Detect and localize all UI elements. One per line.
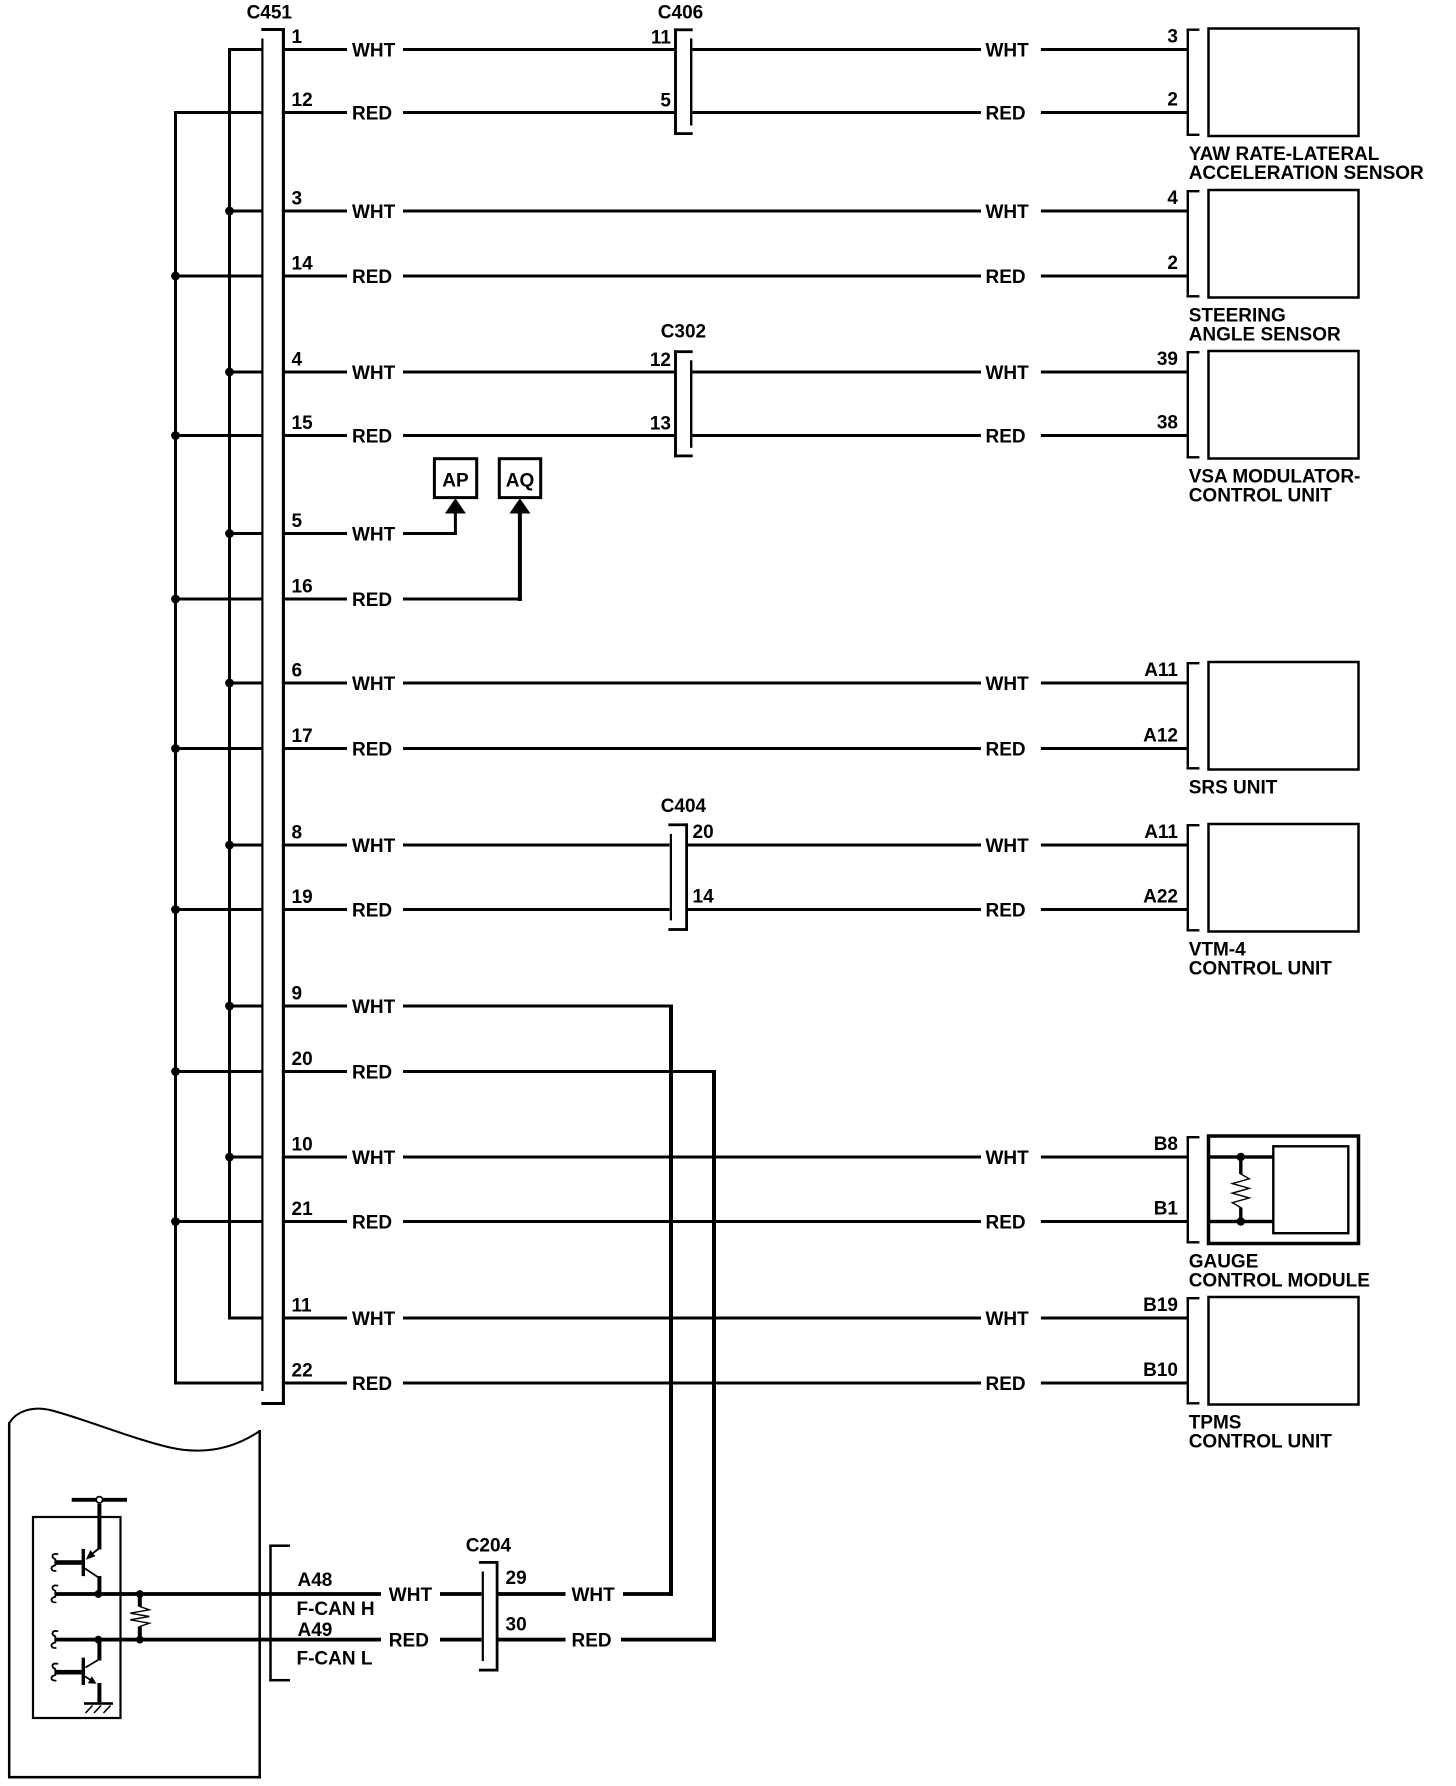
svg-text:39: 39 bbox=[1157, 349, 1178, 370]
svg-text:CONTROL UNIT: CONTROL UNIT bbox=[1189, 1432, 1333, 1453]
svg-text:3: 3 bbox=[1167, 27, 1178, 48]
svg-text:AQ: AQ bbox=[506, 470, 535, 491]
svg-text:C204: C204 bbox=[466, 1536, 512, 1557]
svg-text:5: 5 bbox=[292, 511, 303, 532]
svg-text:B10: B10 bbox=[1143, 1360, 1178, 1381]
svg-text:8: 8 bbox=[292, 823, 303, 844]
svg-text:38: 38 bbox=[1157, 413, 1178, 434]
svg-text:29: 29 bbox=[506, 1568, 527, 1589]
svg-text:20: 20 bbox=[693, 822, 714, 843]
svg-text:WHT: WHT bbox=[986, 202, 1030, 223]
svg-text:WHT: WHT bbox=[352, 674, 396, 695]
svg-text:B1: B1 bbox=[1154, 1199, 1179, 1220]
svg-text:F-CAN H: F-CAN H bbox=[297, 1599, 375, 1620]
svg-text:ANGLE SENSOR: ANGLE SENSOR bbox=[1189, 325, 1341, 346]
svg-text:RED: RED bbox=[572, 1631, 612, 1652]
svg-text:WHT: WHT bbox=[986, 836, 1030, 857]
svg-text:14: 14 bbox=[292, 254, 314, 275]
svg-text:RED: RED bbox=[352, 740, 392, 761]
svg-text:13: 13 bbox=[650, 414, 671, 435]
svg-text:A11: A11 bbox=[1144, 822, 1178, 843]
svg-text:ACCELERATION SENSOR: ACCELERATION SENSOR bbox=[1189, 163, 1424, 184]
svg-text:RED: RED bbox=[352, 1063, 392, 1084]
svg-text:WHT: WHT bbox=[352, 202, 396, 223]
svg-text:4: 4 bbox=[1167, 188, 1178, 209]
svg-text:2: 2 bbox=[1167, 253, 1178, 274]
svg-text:C451: C451 bbox=[247, 3, 293, 24]
svg-text:WHT: WHT bbox=[352, 836, 396, 857]
svg-text:RED: RED bbox=[352, 104, 392, 125]
svg-text:A12: A12 bbox=[1143, 726, 1178, 747]
svg-text:B8: B8 bbox=[1154, 1134, 1178, 1155]
svg-text:A48: A48 bbox=[298, 1570, 333, 1591]
svg-text:RED: RED bbox=[986, 1374, 1026, 1395]
svg-text:6: 6 bbox=[292, 661, 303, 682]
svg-text:VTM-4: VTM-4 bbox=[1189, 940, 1246, 961]
svg-text:TPMS: TPMS bbox=[1189, 1413, 1242, 1434]
svg-text:15: 15 bbox=[292, 413, 314, 434]
svg-text:RED: RED bbox=[352, 1213, 392, 1234]
svg-text:RED: RED bbox=[986, 1213, 1026, 1234]
svg-text:RED: RED bbox=[986, 104, 1026, 125]
svg-text:11: 11 bbox=[292, 1296, 313, 1317]
svg-text:F-CAN L: F-CAN L bbox=[297, 1648, 373, 1669]
svg-text:RED: RED bbox=[352, 590, 392, 611]
svg-text:2: 2 bbox=[1167, 90, 1178, 111]
svg-text:WHT: WHT bbox=[352, 1309, 396, 1330]
svg-text:4: 4 bbox=[292, 350, 303, 371]
svg-text:10: 10 bbox=[292, 1135, 313, 1156]
svg-text:CONTROL UNIT: CONTROL UNIT bbox=[1189, 959, 1333, 980]
svg-text:WHT: WHT bbox=[986, 363, 1030, 384]
svg-text:RED: RED bbox=[986, 427, 1026, 448]
svg-text:1: 1 bbox=[292, 27, 303, 48]
svg-text:21: 21 bbox=[292, 1199, 314, 1220]
svg-text:3: 3 bbox=[292, 189, 303, 210]
svg-text:A22: A22 bbox=[1143, 887, 1178, 908]
svg-text:WHT: WHT bbox=[986, 1309, 1030, 1330]
svg-text:WHT: WHT bbox=[572, 1585, 616, 1606]
svg-text:VSA MODULATOR-: VSA MODULATOR- bbox=[1189, 467, 1361, 488]
svg-text:CONTROL MODULE: CONTROL MODULE bbox=[1189, 1271, 1370, 1292]
svg-text:WHT: WHT bbox=[352, 1148, 396, 1169]
svg-text:RED: RED bbox=[352, 427, 392, 448]
svg-text:17: 17 bbox=[292, 726, 313, 747]
svg-text:22: 22 bbox=[292, 1361, 313, 1382]
svg-text:WHT: WHT bbox=[986, 1148, 1030, 1169]
svg-text:WHT: WHT bbox=[352, 997, 396, 1018]
svg-text:RED: RED bbox=[352, 901, 392, 922]
svg-text:12: 12 bbox=[650, 350, 671, 371]
svg-text:9: 9 bbox=[292, 984, 303, 1005]
svg-text:CONTROL UNIT: CONTROL UNIT bbox=[1189, 486, 1333, 507]
svg-text:SRS UNIT: SRS UNIT bbox=[1189, 778, 1278, 799]
svg-text:YAW RATE-LATERAL: YAW RATE-LATERAL bbox=[1189, 144, 1380, 165]
svg-text:RED: RED bbox=[352, 1374, 392, 1395]
svg-text:16: 16 bbox=[292, 577, 313, 598]
svg-text:14: 14 bbox=[693, 887, 715, 908]
svg-text:RED: RED bbox=[352, 267, 392, 288]
svg-text:C302: C302 bbox=[661, 322, 706, 343]
svg-text:11: 11 bbox=[651, 28, 672, 49]
svg-text:30: 30 bbox=[506, 1615, 527, 1636]
svg-text:B19: B19 bbox=[1143, 1295, 1178, 1316]
svg-text:20: 20 bbox=[292, 1049, 313, 1070]
svg-text:WHT: WHT bbox=[986, 41, 1030, 62]
svg-text:AP: AP bbox=[442, 470, 469, 491]
svg-text:GAUGE: GAUGE bbox=[1189, 1252, 1259, 1273]
svg-text:A49: A49 bbox=[298, 1620, 333, 1641]
svg-text:WHT: WHT bbox=[986, 674, 1030, 695]
svg-text:RED: RED bbox=[389, 1631, 429, 1652]
svg-text:5: 5 bbox=[660, 91, 671, 112]
svg-text:A11: A11 bbox=[1144, 660, 1178, 681]
svg-text:STEERING: STEERING bbox=[1189, 306, 1286, 327]
svg-text:RED: RED bbox=[986, 267, 1026, 288]
svg-text:WHT: WHT bbox=[352, 363, 396, 384]
svg-text:WHT: WHT bbox=[352, 525, 396, 546]
svg-text:RED: RED bbox=[986, 740, 1026, 761]
svg-text:RED: RED bbox=[986, 901, 1026, 922]
svg-text:C406: C406 bbox=[658, 3, 703, 24]
svg-text:12: 12 bbox=[292, 90, 313, 111]
svg-text:C404: C404 bbox=[661, 796, 707, 817]
svg-text:WHT: WHT bbox=[352, 41, 396, 62]
svg-text:19: 19 bbox=[292, 887, 313, 908]
svg-text:WHT: WHT bbox=[389, 1585, 433, 1606]
